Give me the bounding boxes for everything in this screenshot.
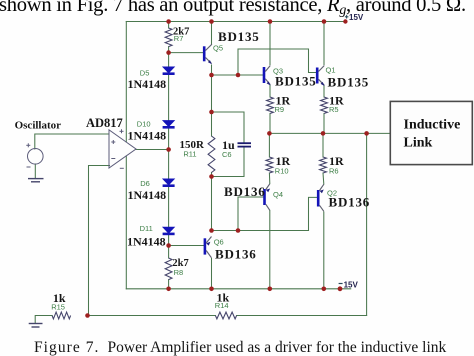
wire upper base branch over to Q1 <box>238 49 316 75</box>
wire Q1 collector to +15V rail <box>323 22 325 65</box>
node lower driver <box>209 174 214 179</box>
node bottom rail R8 <box>166 287 171 292</box>
wire capacitor top branch <box>212 112 245 142</box>
transistor Q3 BD135 <box>263 66 271 86</box>
node op-amp output <box>166 147 171 152</box>
svg-text:15V: 15V <box>344 280 359 289</box>
diode D10 1N4148 <box>163 121 174 129</box>
wire lower driver node down to Q6 node <box>211 177 213 231</box>
svg-text:R15: R15 <box>51 303 65 312</box>
resistor R14 1k <box>215 312 236 319</box>
svg-text:Q3: Q3 <box>273 67 283 76</box>
node bottom rail Q6 <box>209 287 214 292</box>
svg-text:R11: R11 <box>183 150 196 159</box>
wire D6 to D11 <box>168 187 170 227</box>
node rail Q3 collector <box>268 19 273 24</box>
wire R8 to bottom rail <box>168 280 170 289</box>
wire mid rail to R10 <box>268 133 270 157</box>
svg-text:1N4148: 1N4148 <box>127 234 166 248</box>
svg-text:D10: D10 <box>137 120 151 129</box>
node feedback junction <box>85 313 90 318</box>
wire diode column segment rail to R7 <box>168 22 170 29</box>
wire Q5 collector to +15V rail <box>211 22 213 45</box>
svg-text:R7: R7 <box>174 34 184 43</box>
diode group <box>163 67 174 235</box>
svg-text:D5: D5 <box>140 68 150 77</box>
wire oscillator ground stem <box>34 164 36 178</box>
resistor R9 1R <box>267 97 274 114</box>
wire Q1 emitter to R5 <box>323 86 325 98</box>
wire Q5 base <box>169 52 203 54</box>
wire op-amp output <box>136 149 169 151</box>
ground below oscillator <box>28 179 44 182</box>
wire driver node to 150R <box>211 112 213 136</box>
oscillator source <box>26 143 43 167</box>
capacitor C6 1u <box>238 142 252 147</box>
transistor Q1 BD135 <box>316 66 325 87</box>
wire group <box>35 22 391 323</box>
svg-text:Power Amplifier used as a driv: Power Amplifier used as a driver for the… <box>108 339 447 356</box>
svg-text:1N4148: 1N4148 <box>128 129 167 143</box>
label +15V <box>345 13 364 22</box>
svg-text:BD135: BD135 <box>328 75 370 90</box>
wire 150R to lower driver node <box>211 173 213 177</box>
svg-text:1N4148: 1N4148 <box>128 77 167 91</box>
designator label group <box>51 34 338 312</box>
node -15V terminal <box>338 286 343 291</box>
node D11/R8 Q6 base <box>166 243 171 248</box>
diode D5 1N4148 <box>163 67 174 75</box>
wire feedback line right of R14 <box>237 315 367 317</box>
diode D11 1N4148 <box>163 227 174 235</box>
svg-text:D11: D11 <box>140 224 153 233</box>
svg-text:Q1: Q1 <box>326 66 336 75</box>
node mid rail R9/R10 <box>267 131 272 136</box>
svg-text:Figure 7.: Figure 7. <box>34 339 99 356</box>
wire Q3 collector to +15V rail <box>269 22 271 65</box>
svg-text:AD817: AD817 <box>86 116 123 130</box>
inductive link box <box>390 101 472 164</box>
power label group <box>339 13 364 290</box>
resistor R5 1R <box>321 97 328 114</box>
node Q6 emitter bus <box>209 228 214 233</box>
svg-text:Inductive: Inductive <box>404 117 461 132</box>
node rail R7 <box>166 19 171 24</box>
wire capacitor bottom branch <box>212 148 245 177</box>
svg-text:shown in Fig. 7 has an output: shown in Fig. 7 has an output resistance… <box>0 0 466 17</box>
wire Q2 base branch <box>309 197 317 230</box>
wire -15V bottom rail <box>126 288 350 290</box>
node +15V terminal <box>343 19 347 23</box>
wire R5 to mid rail <box>323 114 325 134</box>
svg-text:BD136: BD136 <box>215 247 257 262</box>
transistor Q4 BD136 <box>263 184 270 211</box>
wire Q6 collector to bottom rail <box>211 259 213 289</box>
svg-text:D6: D6 <box>140 179 150 188</box>
resistor R8 2k7 <box>165 258 172 280</box>
wire oscillator to + input <box>35 134 109 149</box>
diode D6 1N4148 <box>163 179 174 187</box>
node Q5 emitter bus <box>209 73 214 78</box>
wire Q4 collector to bottom rail <box>269 211 271 289</box>
wire R15 lead to ground <box>35 316 52 323</box>
wire D11 to R8 <box>168 235 170 258</box>
svg-text:Oscillator: Oscillator <box>15 119 62 131</box>
resistor zigzag group <box>52 28 327 319</box>
wire output mid rail to inductive link <box>269 132 390 134</box>
svg-text:BD135: BD135 <box>218 29 260 44</box>
node rail Q1 collector <box>322 19 327 24</box>
transistor Q6 BD136 <box>204 237 212 258</box>
wire D10 to D6 (through output node) <box>168 127 170 179</box>
svg-text:R6: R6 <box>329 167 339 176</box>
node upper driver <box>209 110 214 115</box>
wire Q4 base branch <box>238 197 263 231</box>
transistor group <box>203 44 325 258</box>
svg-text:1N4148: 1N4148 <box>128 188 167 202</box>
resistor R6 1R <box>320 157 327 173</box>
svg-text:Q5: Q5 <box>213 44 223 53</box>
wire lower base bus <box>212 230 309 232</box>
svg-text:R9: R9 <box>275 105 285 114</box>
wire Q3 emitter to R9 <box>269 86 271 98</box>
wire +15V top rail <box>126 21 346 23</box>
wire Q5 emitter column to driver node <box>211 65 213 112</box>
node upper base branch <box>236 73 241 78</box>
resistor R15 1k <box>52 312 71 319</box>
wire R9 to mid rail <box>269 114 271 134</box>
wire inverting input down to feedback node <box>89 166 110 316</box>
node bottom rail Q4 <box>268 287 273 292</box>
svg-text:Q2: Q2 <box>327 189 337 198</box>
node mid rail R5/R6 <box>321 131 326 136</box>
node mid rail output <box>364 131 369 136</box>
label -15V <box>339 280 359 289</box>
transistor Q2 BD136 <box>317 184 324 211</box>
node R7/D5 Q5 base <box>166 50 171 55</box>
wire output node down right side <box>366 133 368 315</box>
wire op-amp V- supply drop <box>125 156 127 289</box>
svg-text:R14: R14 <box>215 301 229 310</box>
wire Q6 base <box>169 245 204 247</box>
node lower base branch <box>236 228 241 233</box>
node bottom rail Q2 <box>322 287 327 292</box>
svg-text:Q4: Q4 <box>273 190 283 199</box>
value label group <box>15 27 370 306</box>
wire feedback line between R14 and node <box>89 315 216 317</box>
wire R7 to D5 <box>168 47 170 67</box>
wire mid rail to R6 <box>322 133 324 157</box>
wire D5 to D10 <box>168 75 170 121</box>
svg-text:BD135: BD135 <box>275 74 317 89</box>
op-amp U1 AD817 <box>109 129 136 168</box>
junction dot group <box>85 19 369 318</box>
ground at R15 <box>29 324 43 328</box>
svg-text:R10: R10 <box>275 167 289 176</box>
svg-text:Q6: Q6 <box>214 237 224 246</box>
resistor R10 1R <box>266 157 273 173</box>
node rail Q5 collector <box>209 19 214 24</box>
inductive link box text <box>404 117 461 150</box>
resistor R11 150R <box>208 136 215 173</box>
svg-text:BD136: BD136 <box>224 184 266 199</box>
resistor R7 2k7 <box>165 28 172 47</box>
svg-text:R5: R5 <box>329 105 339 114</box>
wire upper base bus to Q3 <box>212 74 264 76</box>
svg-text:Link: Link <box>404 136 433 151</box>
wire op-amp V+ supply drop <box>125 22 127 143</box>
wire R6 to Q2 emitter <box>322 173 325 184</box>
wire R10 to Q4 emitter <box>268 173 270 184</box>
transistor Q5 BD135 <box>203 44 212 64</box>
svg-text:R8: R8 <box>174 268 184 277</box>
svg-text:C6: C6 <box>222 150 232 159</box>
wire Q2 collector to bottom rail <box>323 212 325 289</box>
